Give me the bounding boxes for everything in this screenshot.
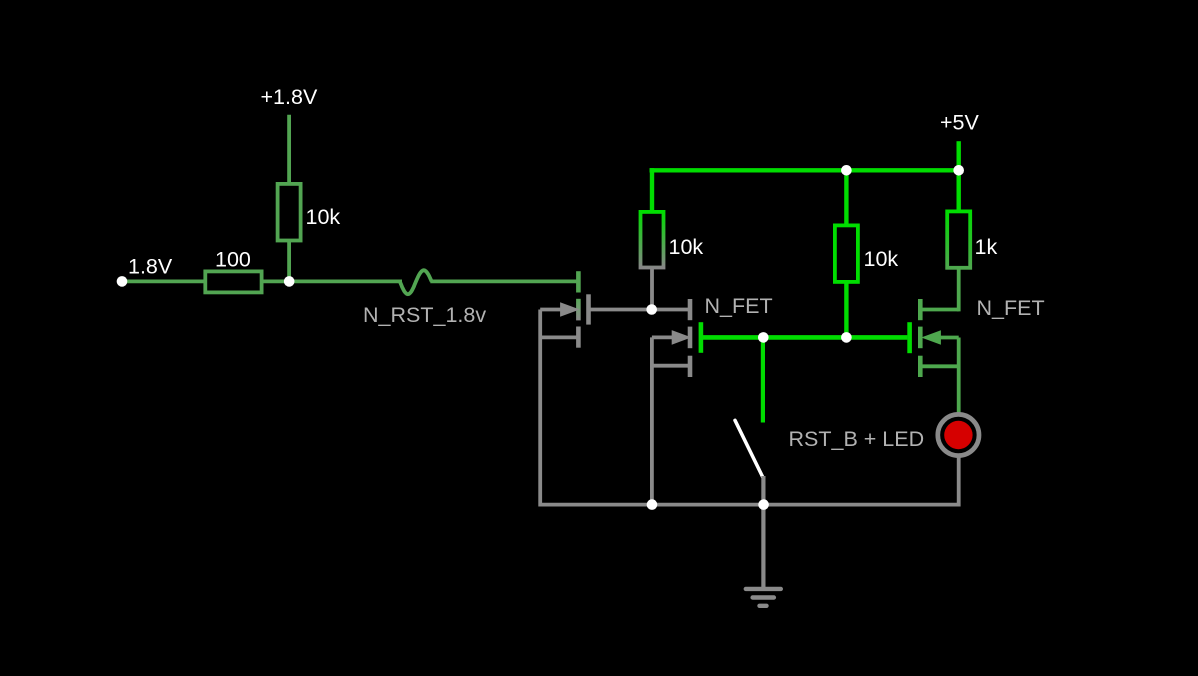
wire top +5V rail [650,168,959,172]
svg-text:100: 100 [215,248,251,272]
svg-text:1.8V: 1.8V [128,255,173,279]
LED D1 ring [938,414,979,455]
svg-text:RST_B + LED: RST_B + LED [789,427,925,451]
wire rail to R1k [957,170,961,212]
transistor Q3 source cap [918,356,923,377]
transistor Q2 source cap [688,356,693,377]
wire node B (Q2 gate to Q3 gate) [703,335,907,340]
transistor Q2 source lead [652,364,690,368]
resistor R 1k [947,211,970,267]
wire resistor to junction [287,241,291,284]
wire R10kA to top rail [650,168,654,212]
transistor Q3 source lead [920,364,958,368]
transistor Q3 bulk arrow [921,330,959,345]
wire Q3 source down to LED [957,338,961,415]
ground symbol [746,589,781,606]
node 1.8V source dot [117,276,128,287]
svg-text:10k: 10k [306,205,341,229]
svg-text:+5V: +5V [940,111,980,135]
wire squiggle to Q1 drain cap [430,279,577,283]
wire 1.8V source to R100 [122,279,207,283]
LED D1 red body [944,421,972,449]
wire node B down to switch [761,337,765,422]
ground stem [761,505,765,589]
transistor Q1 bulk arrow [540,302,580,317]
transistor Q2 gate plate [699,322,704,353]
wire R100 to junction [260,279,291,283]
wire +1.8V supply vertical [287,115,291,184]
node ground rail switch dot [758,499,769,510]
transistor Q3 drain cap [918,299,923,320]
switch SW1 bottom stub [761,476,765,505]
transistor Q2 channel [688,327,693,349]
transistor Q1 source lead [540,335,578,339]
wire R1k to Q3 drain [957,267,961,311]
svg-text:10k: 10k [864,247,899,271]
transistor Q3 gate plate [907,322,912,353]
node rail/R10kB dot [841,165,852,176]
transistor Q2 bulk arrow [652,330,692,345]
wire node A up to R10k [650,268,654,310]
svg-text:N_RST_1.8v: N_RST_1.8v [363,303,486,327]
transistor Q1 drain cap [576,271,581,292]
wire rail to R10kB [844,170,848,226]
squiggle N_RST_1.8v jump [400,270,432,294]
transistor Q1 source cap [576,327,581,348]
transistor Q3 channel [918,327,923,349]
svg-text:N_FET: N_FET [705,294,773,318]
switch SW1 lever (open) [735,420,763,477]
wire Q1 source down to ground rail [538,310,542,507]
wire R10kB to node B [844,281,848,338]
wire +5V stub [957,141,961,170]
transistor Q1 gate lead [589,308,652,312]
transistor Q1 gate plate [586,294,591,324]
resistor R 100 [205,271,261,292]
node junction R100/R10k dot [284,276,295,287]
svg-text:1k: 1k [975,235,998,259]
transistor Q2 drain lead [652,308,690,312]
svg-text:10k: 10k [669,235,704,259]
wire bottom ground rail [540,503,959,507]
node ground rail Q2 dot [647,499,658,510]
wire junction to squiggle [289,279,402,283]
svg-text:+1.8V: +1.8V [261,85,318,109]
resistor R 10k (1.8V pull-up) [278,184,301,241]
transistor Q3 drain lead [920,308,958,312]
transistor Q1 channel [576,299,581,321]
svg-text:N_FET: N_FET [977,296,1045,320]
wire Q2 source down to ground rail [650,337,654,506]
wire LED to ground rail [957,456,961,507]
resistor R 10k (node A pull-up) [641,212,664,268]
node B switch dot [758,332,769,343]
node A junction dot [646,304,657,315]
transistor Q2 drain cap [688,299,693,320]
node B resistor dot [841,332,852,343]
resistor R 10k (node B pull-up) [835,225,858,282]
node rail/+5V corner dot [953,165,964,176]
